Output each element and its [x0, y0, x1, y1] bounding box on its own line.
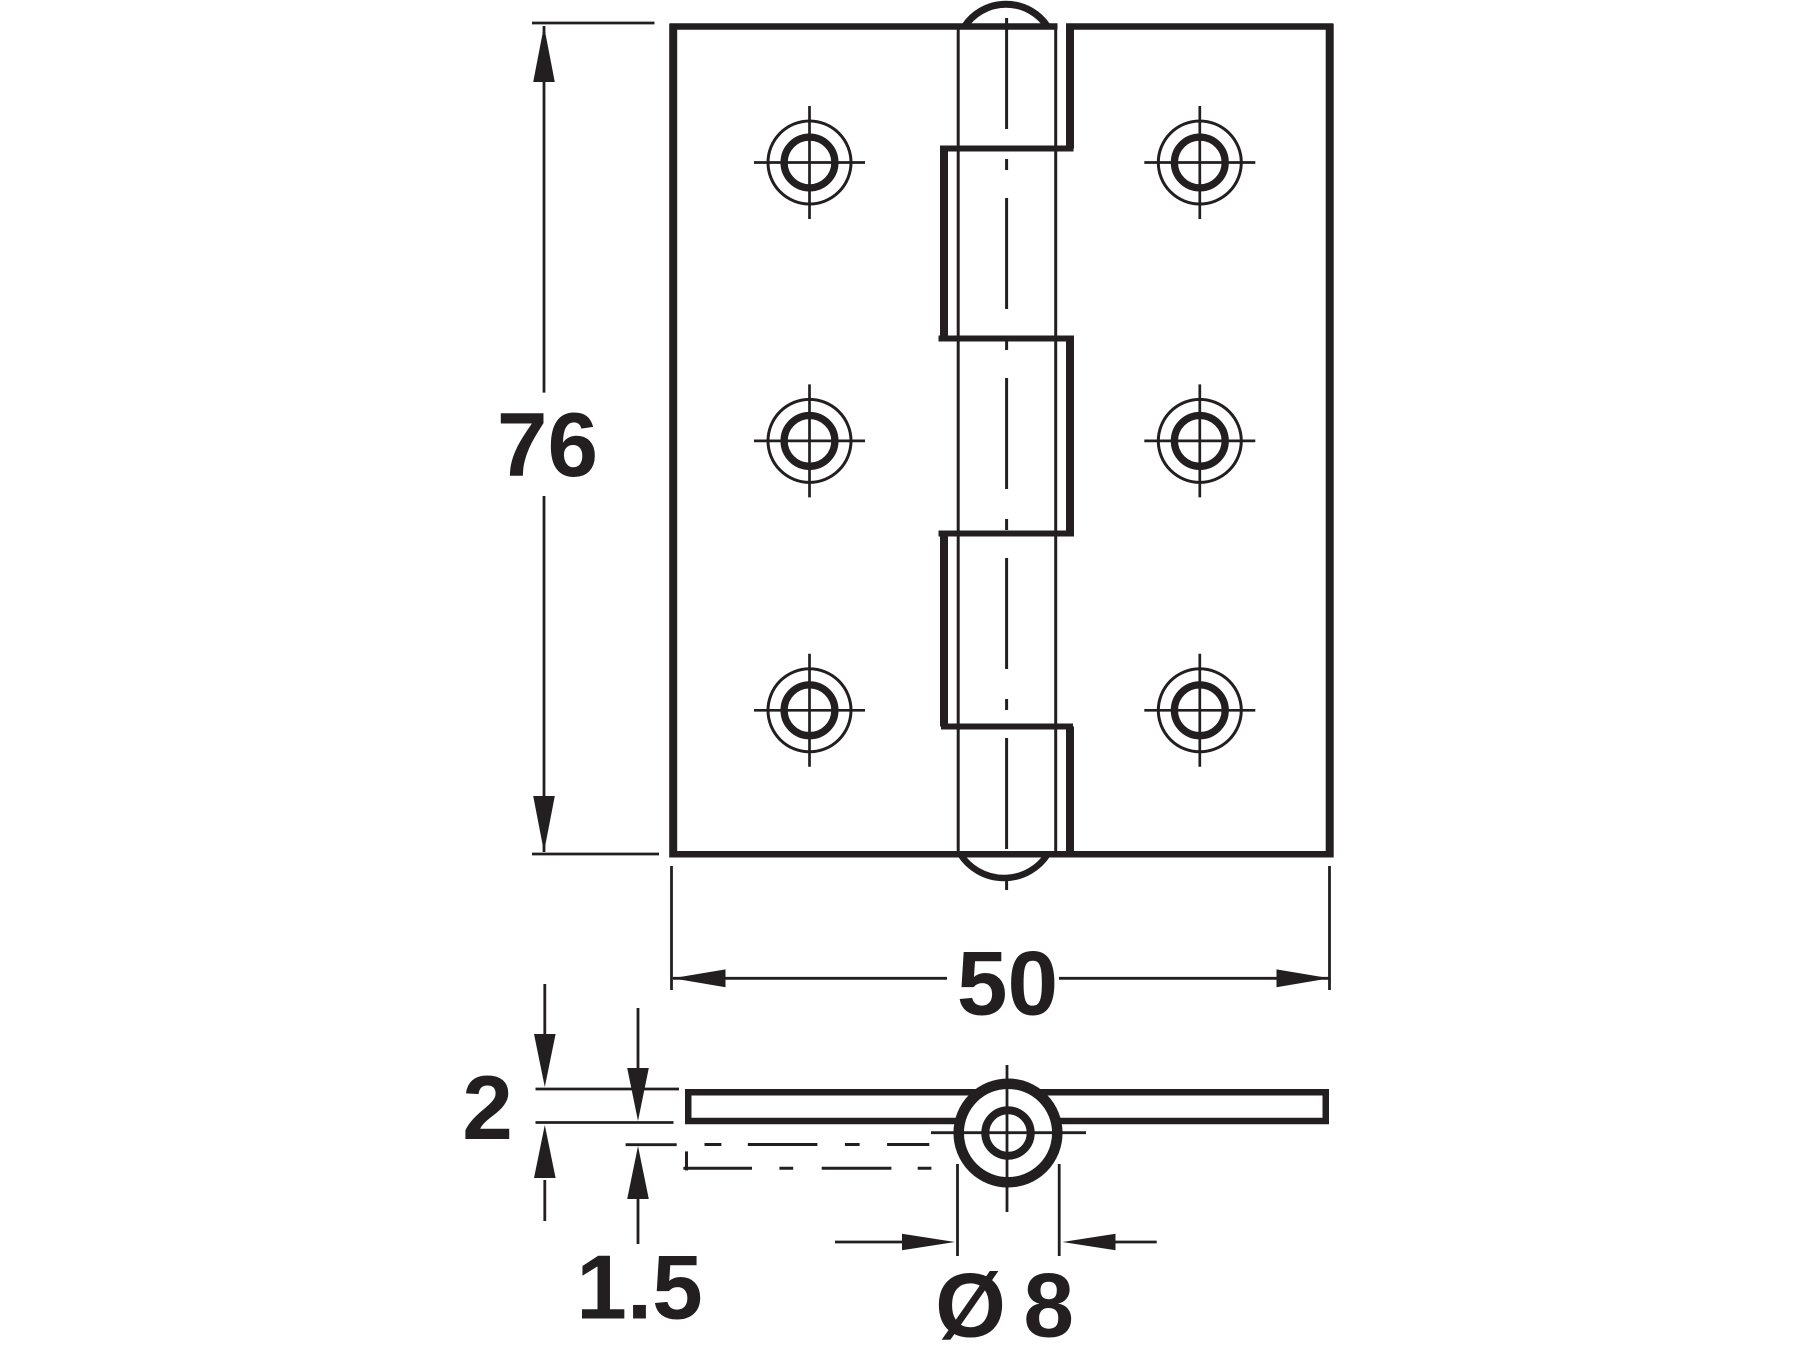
svg-text:1.5: 1.5: [576, 1238, 703, 1339]
svg-text:50: 50: [957, 934, 1058, 1035]
svg-text:2: 2: [462, 1058, 513, 1159]
svg-text:8: 8: [1023, 1256, 1074, 1350]
svg-text:Ø: Ø: [935, 1256, 1006, 1350]
svg-text:76: 76: [497, 395, 598, 496]
